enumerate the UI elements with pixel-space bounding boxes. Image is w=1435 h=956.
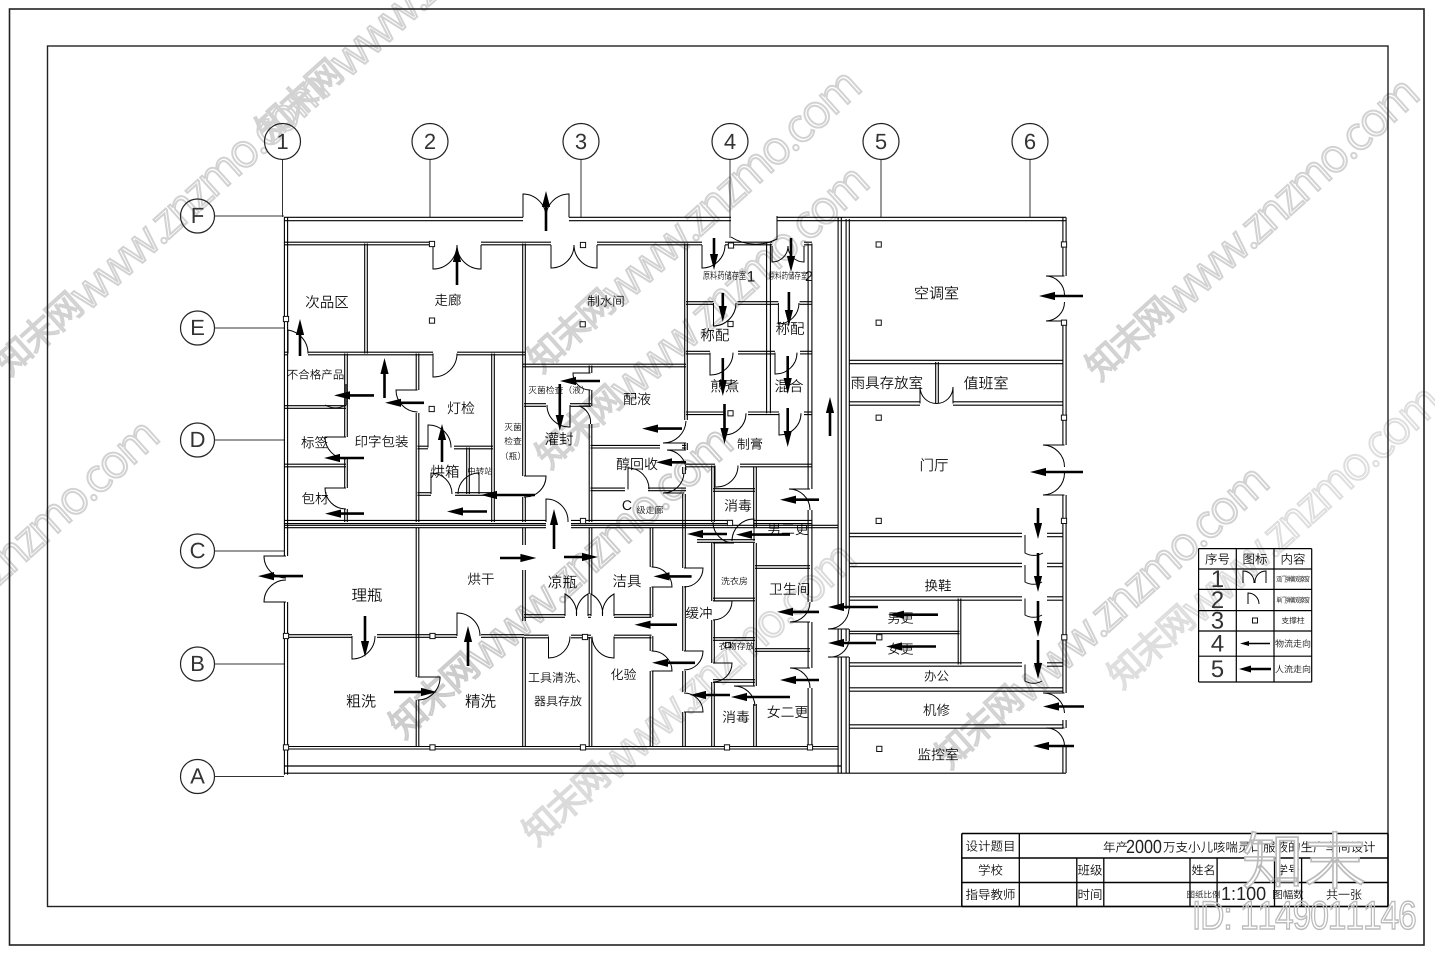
arrow 消毒 top: [780, 496, 819, 504]
doors 制膏 tops: [724, 413, 746, 435]
door 标签: [325, 437, 346, 459]
grid circle E: [181, 311, 215, 345]
label 洗衣房: [721, 577, 729, 585]
wall 凉瓶|洁具: [588, 528, 590, 594]
label 标签: [301, 436, 314, 448]
legend contents: [1276, 576, 1281, 582]
arrow 左C门: [258, 572, 303, 580]
door 烘箱 bottom: [431, 473, 452, 494]
gridline A: [215, 776, 285, 778]
grid circle 5: [863, 124, 899, 160]
arrow 洁具: [654, 572, 692, 580]
wall 制膏 bottom y465.5: [686, 463, 715, 465]
arrow 烘箱 bottom: [447, 507, 487, 515]
door 男更: [828, 609, 849, 629]
wall 烘干|凉瓶: [522, 528, 524, 545]
label 女二更: [767, 705, 779, 718]
wall interior bottom boundary: [284, 746, 838, 748]
wall 卫生间 bottom y650: [755, 648, 810, 650]
label 空调室: [915, 286, 928, 299]
wall main-block right: [837, 217, 839, 609]
support columns: [728, 243, 733, 248]
wall top of room row1: [284, 241, 433, 243]
wall 衣物存放 bottom y681: [713, 679, 755, 681]
grid circle 6: [1012, 124, 1048, 160]
label 称配: [776, 322, 789, 335]
wall 空调室 bottom: [849, 359, 1063, 361]
wall 办公 bottom: [849, 687, 1063, 689]
wall exterior top: [284, 216, 523, 218]
arrow 凉瓶-洁具: [564, 553, 598, 561]
wall 灌封|配液: [588, 366, 590, 374]
grid circle 1: [265, 124, 301, 160]
grid circle F: [181, 199, 215, 233]
label 洁具: [613, 574, 626, 587]
label 器具存放: [534, 696, 545, 706]
door 原料药储存室2 double: [772, 246, 788, 262]
wall 男二更 bottom y567: [755, 565, 810, 567]
wall right-block left: [845, 219, 847, 609]
legend table: [1199, 548, 1312, 550]
wall 女更 bottom: [849, 662, 1022, 664]
arrow chain2 down: [1034, 553, 1042, 592]
label 不合格产品: [287, 370, 297, 380]
arrow 理瓶 down: [361, 616, 369, 657]
doors 煎煮混合 tops: [710, 353, 733, 375]
arrow chain4 down: [1034, 640, 1042, 679]
legend icon double door: [1243, 571, 1254, 583]
arrow 女更 inner: [886, 642, 936, 650]
door 包材: [325, 488, 346, 509]
wall 男更女更 right x959.5: [957, 599, 959, 665]
label 缓冲: [686, 607, 699, 619]
wall 制水间|middle column vertical x686: [684, 244, 686, 421]
door 中转站 bottom: [458, 473, 479, 494]
door 卫生间: [790, 602, 810, 622]
wall 制水间 bottom: [523, 363, 686, 365]
door 缓冲 mid: [684, 568, 703, 587]
label 男二更: [768, 523, 779, 535]
legend no 1: [1213, 570, 1223, 587]
arrow 门厅: [1030, 468, 1083, 476]
arrow 机修: [1043, 702, 1084, 710]
door 烘箱: [428, 425, 451, 448]
legend header: [1205, 553, 1216, 564]
arrow bottom corr: [690, 691, 730, 699]
wall middle column right x810: [807, 244, 809, 490]
label 机修: [923, 704, 936, 716]
label 办公: [925, 670, 936, 681]
wall 缓冲|洗衣房 x713: [711, 466, 713, 523]
arrow 制膏L down: [720, 404, 728, 444]
arrow 精洗 up: [464, 626, 472, 666]
legend icon column: [1253, 618, 1258, 623]
label 消毒: [725, 499, 737, 512]
label 消毒: [723, 710, 735, 723]
wall 凉瓶洁具 bottom y620: [524, 614, 565, 616]
label 配液: [624, 393, 637, 405]
door 醇回收 right: [667, 450, 686, 470]
label 制膏: [738, 438, 749, 450]
arrow 烘干-凉瓶: [500, 554, 536, 562]
wall 次品区|走廊: [364, 244, 366, 354]
grid circle 3: [563, 124, 599, 160]
door 消毒 bottom-left: [734, 686, 755, 706]
arrow 配液: [642, 425, 682, 433]
label 原料药储存室1: [703, 271, 709, 280]
door 监控室 right: [1046, 728, 1065, 746]
wall 原料药储存室1|2: [766, 244, 768, 414]
wall 煎煮混合 bottom y413.3: [686, 411, 724, 413]
arrow 消毒 bottom: [731, 693, 790, 701]
arrow 标签: [324, 454, 364, 462]
wall 雨具|值班: [935, 362, 937, 404]
door 女更: [828, 641, 849, 657]
door 缓冲 bottom: [684, 693, 703, 712]
gridline 5: [880, 160, 882, 218]
gridline D: [215, 439, 285, 441]
legend icon thin arrow: [1240, 641, 1270, 646]
arrow 化验: [652, 659, 695, 667]
legend icon thick arrow: [1239, 666, 1271, 673]
wall 消毒 top bottom y541: [697, 539, 755, 541]
legend no 3: [1212, 612, 1223, 629]
arrow 醇回收: [656, 458, 686, 466]
door 灌封 top: [547, 405, 570, 427]
gridline F: [215, 215, 285, 217]
door 制膏 bottom: [715, 466, 738, 488]
door top entry 2 (x731-777): [731, 216, 777, 244]
door 雨具值班 double: [920, 387, 937, 404]
arrow chain1 down: [1034, 508, 1042, 539]
watermark ID text: [1195, 901, 1198, 929]
door 化验 right: [652, 651, 673, 671]
arrow 灌封区 up: [550, 509, 558, 549]
label C级走廊: [623, 500, 632, 510]
arrow 走廊 up: [453, 246, 461, 285]
label 粗洗: [347, 694, 361, 708]
label 混合: [775, 379, 788, 392]
grid circle 2: [412, 124, 448, 160]
label 换鞋: [925, 579, 937, 591]
door 灯检: [396, 390, 418, 412]
grid circle D: [181, 423, 215, 457]
door 原料药储存室1: [702, 245, 725, 268]
arrow 储存室1 down: [710, 238, 718, 270]
legend no 2: [1212, 591, 1223, 608]
arrow 灭菌检查瓶: [481, 491, 535, 499]
row3: [966, 889, 977, 900]
label 灯检: [448, 401, 461, 414]
door 洁具 right: [652, 567, 673, 587]
row2: [979, 864, 990, 876]
wall 中转站|灭菌检查瓶: [491, 354, 493, 523]
door 消毒 bottom right: [732, 519, 754, 541]
label 男更: [888, 613, 899, 624]
label 卫生间: [770, 583, 782, 594]
wall 储存室 bottom y303: [686, 301, 714, 303]
wall 门厅 bottom: [849, 532, 1022, 534]
door 灌封-配液: [579, 406, 591, 424]
wall 衣物存放 top y639: [713, 637, 755, 639]
wall corridor bottom y637.5: [524, 634, 549, 636]
wall 称配 bottom y352.6: [686, 350, 710, 352]
arrow 次品区 up: [296, 319, 304, 356]
arrow 灯检: [385, 399, 424, 407]
door 衣物存放: [713, 663, 732, 682]
label 精洗: [466, 694, 480, 708]
arrow 男二更: [736, 531, 790, 539]
legend icon single door: [1248, 593, 1259, 604]
label 印字包装: [355, 435, 366, 447]
door 烘干-精洗: [457, 613, 480, 636]
wall 配液 bottom: [591, 444, 661, 446]
wall 烘箱|中转站: [466, 448, 468, 495]
wall exterior right: [1062, 217, 1064, 276]
wall big row boundary y522: [284, 519, 546, 521]
grid circle B: [181, 647, 215, 681]
arrow 储存室2 down: [787, 238, 795, 272]
door 醇回收 bottom: [628, 468, 649, 489]
arrow 烘箱 up: [438, 424, 446, 462]
legend no 5: [1212, 660, 1223, 677]
arrow 印字包装 up: [380, 358, 388, 398]
label 灌封: [545, 432, 558, 445]
wall row3 top y526: [284, 524, 546, 526]
wall 理瓶 bottom y636: [284, 634, 352, 636]
wall 灯检 bottom: [418, 445, 429, 447]
wall 机修 bottom: [849, 724, 1063, 726]
wall corridor strip y565: [849, 562, 1022, 564]
label 工具清洗、: [529, 673, 540, 682]
wall row1 bottom left (y353): [284, 351, 288, 353]
arrow 监控室: [1033, 742, 1074, 750]
gridline C: [215, 550, 285, 552]
wall 走廊|制水间 + 灭菌检查瓶|灌封: [522, 244, 524, 477]
door 化验 top: [592, 637, 614, 659]
label 值班室: [964, 376, 978, 390]
wall 消毒 top y490: [713, 488, 755, 490]
arrow 卫生间: [777, 608, 819, 616]
wall 换鞋 bottom: [849, 596, 1022, 598]
label 中转站: [468, 467, 475, 475]
wall 男更|女更: [849, 630, 959, 632]
label 理瓶: [352, 588, 366, 601]
label 次品区: [306, 295, 319, 308]
door 女二更: [790, 668, 810, 688]
wall 洗衣房 bottom y599: [713, 597, 755, 599]
label 烘干: [468, 573, 480, 585]
arrow 包材: [325, 510, 364, 518]
wall 不合格产品 bottom: [284, 405, 346, 407]
wall 印字包装|灯检: [415, 354, 417, 391]
door 理瓶-粗洗: [352, 636, 375, 659]
label 凉瓶: [548, 575, 561, 588]
label 原料药储存室2: [769, 272, 775, 280]
door 走廊-印字包装: [433, 354, 457, 378]
arrow corridor up: [826, 397, 834, 436]
wall 雨具值班 bottom: [849, 401, 920, 403]
door 门厅 right: [1043, 445, 1065, 467]
label 煎煮: [711, 379, 724, 392]
door 空调室 right: [1046, 276, 1065, 295]
watermark logo 知末 bottom right: [1244, 832, 1298, 889]
arrow 称配1 down: [719, 293, 727, 322]
arrow 混合 down: [784, 356, 792, 394]
door top entry double (x523-569): [523, 194, 546, 217]
arrow 灌封 down: [556, 384, 564, 431]
door 工具清洗 top: [549, 637, 571, 659]
arrow 制膏R down: [784, 408, 792, 447]
door 粗洗-精洗: [418, 677, 441, 700]
wall 醇回收 bottom: [591, 487, 626, 489]
gridline 2: [429, 160, 431, 218]
title row: [966, 840, 977, 851]
wall 缓冲 left x684: [682, 467, 684, 474]
label 监控室: [918, 748, 931, 760]
arrow 空调室: [1039, 292, 1083, 300]
wall 灭菌检查液 lobby bottom: [524, 403, 546, 405]
label 灭菌检查（瓶） vertical: [505, 423, 513, 431]
gridline 4: [729, 160, 731, 239]
label 称配: [701, 328, 714, 341]
label 衣物存放: [719, 642, 727, 650]
arrow 称配2 down: [785, 292, 793, 326]
label 制水间: [588, 295, 599, 306]
door C级走廊-corridor: [789, 489, 810, 510]
grid circle A: [181, 760, 215, 794]
door 洗衣房 top (缓冲): [713, 522, 734, 543]
arrow chain3 down: [1034, 601, 1042, 637]
gridline 6: [1029, 160, 1031, 218]
grid circle 4: [712, 124, 748, 160]
arrow corridor mid: [635, 621, 678, 629]
door 次品区 left: [288, 330, 308, 354]
label 包材: [302, 492, 314, 504]
door 配液 right: [663, 421, 686, 443]
label 雨具存放室: [851, 377, 864, 389]
door 灭菌检查液 lobby: [573, 373, 591, 390]
door 凉瓶 bottom double: [565, 594, 577, 616]
door 缓冲 low: [684, 651, 703, 670]
wall exterior left: [283, 217, 285, 556]
doors 门厅-办公 chain: [1025, 535, 1043, 555]
doors 称配 tops: [714, 303, 737, 326]
door 机修 right: [1043, 693, 1065, 713]
wall 烘箱 bottom: [418, 492, 432, 494]
door 不合格产品: [325, 384, 346, 408]
arrow 男更 outer: [828, 603, 878, 611]
gridline 3: [580, 160, 582, 218]
arrow 灭菌检查液: [560, 377, 600, 385]
door 走廊 double (top): [433, 245, 457, 269]
door left exterior C double: [264, 556, 286, 578]
arrow 粗洗-精洗: [394, 688, 437, 696]
wall 标签|印字包装: [344, 354, 346, 438]
door 洗衣房: [713, 601, 732, 620]
label 醇回收: [617, 457, 630, 470]
gridline B: [215, 663, 285, 665]
label 化验: [611, 668, 623, 680]
title block table: [962, 833, 1388, 835]
arrow 煎煮 down: [719, 358, 727, 396]
grid circle C: [181, 534, 215, 568]
arrow 女更 outer: [828, 639, 876, 647]
legend no 4: [1211, 635, 1223, 652]
arrow 男更 inner: [888, 611, 938, 619]
door up into 灌封 (y522): [546, 499, 568, 522]
door 缓冲 top: [663, 473, 684, 493]
door 洁具 bottom double: [591, 594, 603, 616]
arrow C级走廊 entry: [687, 530, 727, 538]
door 制水间 top: [551, 245, 574, 268]
door 灭菌检查瓶: [524, 476, 546, 497]
label 女更: [888, 643, 900, 655]
label 灭菌检查（液）: [529, 386, 537, 394]
gridline 1: [282, 160, 284, 218]
wall 洗衣房 col right x755: [753, 467, 755, 527]
arrow 不合格产品: [334, 391, 374, 399]
wall 理瓶|烘干: [415, 528, 417, 677]
gridline E: [215, 327, 285, 329]
wall 洁具|corridor x651.5: [649, 528, 651, 567]
arrow top entry up: [542, 191, 550, 231]
wall exterior bottom: [284, 765, 841, 767]
wall 标签 bottom: [284, 463, 346, 465]
arrow 女二更: [780, 676, 819, 684]
label 烘箱: [431, 465, 444, 478]
label 门厅: [921, 458, 933, 471]
label 走廊: [435, 294, 447, 306]
